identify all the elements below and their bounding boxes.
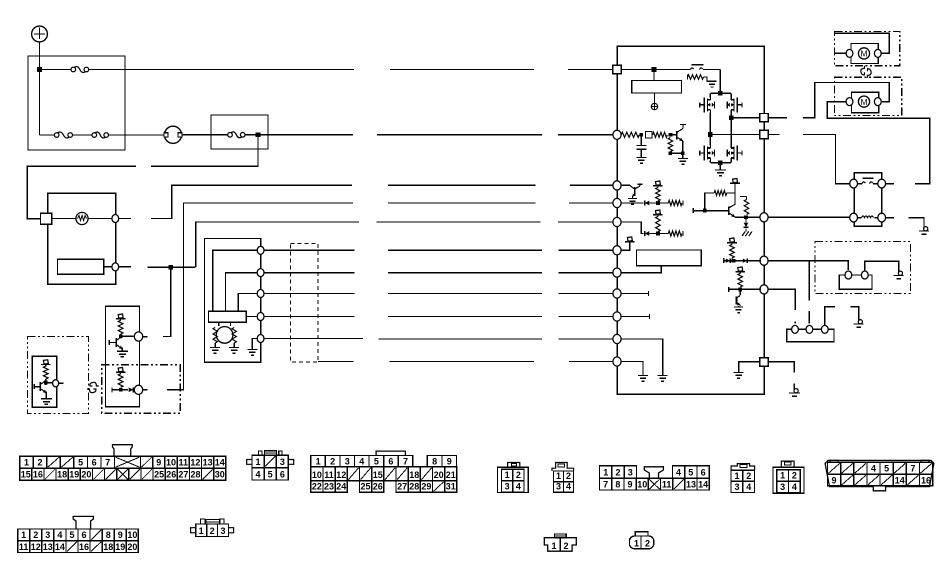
svg-text:30: 30 <box>215 470 225 480</box>
svg-text:9: 9 <box>447 456 452 466</box>
fuse F4 <box>228 133 233 138</box>
service connector box <box>839 275 872 289</box>
svg-text:2: 2 <box>516 470 521 480</box>
svg-text:13: 13 <box>43 542 53 552</box>
svg-text:10: 10 <box>312 470 322 480</box>
fuse box 2 (under-dash) <box>211 115 268 149</box>
ground torque shield <box>247 349 257 351</box>
torque sensor coil <box>216 327 233 344</box>
svg-text:6: 6 <box>388 456 393 466</box>
svg-text:3: 3 <box>345 456 350 466</box>
ground torque coil left <box>210 347 220 349</box>
svg-text:3: 3 <box>556 482 561 492</box>
wire bridge out right <box>731 117 760 119</box>
input clamp row4 <box>621 202 643 204</box>
wire row2 to ECU IG1 <box>258 134 353 136</box>
svg-text:1: 1 <box>256 457 261 467</box>
svg-text:2: 2 <box>566 471 571 481</box>
svg-text:11: 11 <box>662 480 672 490</box>
wire battery to fuse box <box>39 42 41 70</box>
junction battery feed <box>37 67 42 72</box>
vehicle speed sensor dash-dot box <box>28 337 89 414</box>
svg-text:2: 2 <box>615 468 620 478</box>
svg-text:2: 2 <box>645 539 650 549</box>
terminal oval lower <box>134 385 142 394</box>
gauge assembly box <box>48 193 116 284</box>
svg-text:5: 5 <box>69 530 74 540</box>
svg-text:16: 16 <box>921 475 931 485</box>
svg-text:14: 14 <box>895 475 905 485</box>
svg-text:15: 15 <box>373 470 383 480</box>
relay contact <box>850 179 858 188</box>
svg-text:6: 6 <box>82 530 87 540</box>
svg-text:19: 19 <box>69 470 79 480</box>
svg-text:21: 21 <box>446 470 456 480</box>
ground torque coil right <box>229 347 239 349</box>
svg-text:10: 10 <box>127 530 137 540</box>
svg-text:3: 3 <box>221 526 226 536</box>
svg-text:29: 29 <box>421 482 431 492</box>
connector F (14P) grid <box>600 466 612 479</box>
wire fuse row 1 <box>40 69 72 71</box>
svg-text:13: 13 <box>686 480 696 490</box>
svg-text:4: 4 <box>871 464 876 474</box>
fuse F2 <box>54 133 59 138</box>
wire torque t5 row10 <box>264 338 363 340</box>
svg-text:4: 4 <box>516 482 521 492</box>
svg-text:1: 1 <box>316 456 321 466</box>
motor inner box lower <box>852 92 879 112</box>
wire relay coil to ground <box>886 217 894 219</box>
svg-text:1: 1 <box>603 468 608 478</box>
IG1 input filter <box>621 132 639 137</box>
junction bridge mid-left <box>708 132 713 137</box>
wire ignition to fuse box 2 <box>182 134 211 136</box>
svg-text:12: 12 <box>31 542 41 552</box>
wire torque t4 row9 <box>264 316 354 318</box>
wire torque t2 row7 <box>264 272 354 274</box>
svg-text:3: 3 <box>780 482 785 492</box>
svg-text:5: 5 <box>374 456 379 466</box>
svg-text:7: 7 <box>403 456 408 466</box>
ignition switch <box>164 126 181 143</box>
ground right square internal <box>739 362 760 373</box>
svg-text:1: 1 <box>21 530 26 540</box>
ground H-bridge <box>715 169 726 171</box>
svg-text:3: 3 <box>734 482 739 492</box>
wire bridge out left <box>710 134 759 136</box>
wire +B internal <box>621 69 686 71</box>
svg-text:28: 28 <box>409 482 419 492</box>
svg-text:2: 2 <box>330 456 335 466</box>
connector C (31P) grid <box>311 456 326 467</box>
svg-text:24: 24 <box>336 482 346 492</box>
svg-text:12: 12 <box>190 458 200 468</box>
svg-text:1: 1 <box>634 539 639 549</box>
ECU left terminals <box>613 65 621 73</box>
connector A (30P) grid <box>20 456 34 468</box>
svg-text:2: 2 <box>38 458 43 468</box>
motor driver H-bridge <box>710 92 731 94</box>
svg-text:8: 8 <box>106 530 111 540</box>
terminal oval VSS <box>53 380 59 387</box>
svg-text:25: 25 <box>154 470 164 480</box>
svg-text:4: 4 <box>746 482 751 492</box>
connector C (31P) tab <box>376 451 405 455</box>
svg-text:23: 23 <box>324 482 334 492</box>
svg-text:1: 1 <box>734 471 739 481</box>
svg-text:5: 5 <box>268 469 273 479</box>
ground ECU main <box>794 389 798 393</box>
connector L (3P) <box>191 528 196 533</box>
connector B (6P) <box>247 460 252 465</box>
svg-text:5: 5 <box>78 458 83 468</box>
svg-text:3: 3 <box>628 468 633 478</box>
svg-text:14: 14 <box>55 542 65 552</box>
svg-text:11: 11 <box>324 470 334 480</box>
connector M (2P) <box>544 538 576 552</box>
svg-text:16: 16 <box>33 470 43 480</box>
svg-text:2: 2 <box>792 471 797 481</box>
meter internal unit <box>57 259 103 274</box>
junction bridge top <box>718 91 723 96</box>
EPS warning lamp <box>52 218 76 220</box>
svg-text:1: 1 <box>199 526 204 536</box>
wire data link ground <box>825 307 835 326</box>
fuse box 1 (under-hood) <box>28 56 125 150</box>
connector J (16P) outline <box>830 460 929 462</box>
svg-text:4: 4 <box>57 530 62 540</box>
svg-text:7: 7 <box>105 458 110 468</box>
fuse F1 <box>71 67 76 72</box>
upper signal circuit <box>118 314 123 318</box>
terminal oval lamp out <box>112 215 119 223</box>
ground row11 <box>621 362 643 376</box>
svg-text:16: 16 <box>79 542 89 552</box>
svg-text:3: 3 <box>45 530 50 540</box>
svg-text:6: 6 <box>92 458 97 468</box>
fail-safe relay <box>686 69 691 71</box>
svg-text:18: 18 <box>409 470 419 480</box>
svg-text:1: 1 <box>505 470 510 480</box>
svg-text:11: 11 <box>19 542 29 552</box>
svg-text:1: 1 <box>551 541 556 551</box>
relay coil <box>850 213 858 222</box>
svg-text:19: 19 <box>115 542 125 552</box>
motor lower <box>858 96 869 107</box>
svg-text:26: 26 <box>166 470 176 480</box>
svg-text:2: 2 <box>33 530 38 540</box>
ground relay coil <box>924 227 928 231</box>
connector G (4P) <box>731 464 755 471</box>
svg-text:4: 4 <box>792 482 797 492</box>
motor upper <box>858 48 869 59</box>
ECU right terminals <box>760 113 768 121</box>
torque output clamp 1 <box>730 238 735 242</box>
svg-text:M: M <box>860 49 867 59</box>
terminal oval upper <box>134 332 142 341</box>
svg-text:3: 3 <box>505 482 510 492</box>
svg-text:18: 18 <box>57 470 67 480</box>
terminal ovals torque sensor <box>257 246 264 254</box>
connector dashed box <box>291 244 319 363</box>
svg-text:2: 2 <box>746 471 751 481</box>
svg-text:M: M <box>860 97 867 107</box>
input clamp row5 <box>621 222 643 234</box>
svg-text:2: 2 <box>210 526 215 536</box>
svg-text:1: 1 <box>780 471 785 481</box>
wire lower sensor to ECU row4 <box>167 203 353 390</box>
torque output clamp 2 <box>738 267 743 271</box>
svg-text:27: 27 <box>397 482 407 492</box>
capacitor filter <box>640 135 642 146</box>
svg-text:20: 20 <box>127 542 137 552</box>
svg-text:22: 22 <box>312 482 322 492</box>
wire row1 to ECU +B <box>125 69 354 71</box>
supply stub row6 <box>621 243 630 250</box>
svg-text:5: 5 <box>884 464 889 474</box>
EPS control unit box <box>617 46 764 394</box>
current limit circuit <box>693 210 729 212</box>
svg-text:8: 8 <box>615 480 620 490</box>
svg-text:4: 4 <box>676 468 681 478</box>
torque sensor inner wires <box>213 250 257 311</box>
analog supply symbol <box>654 93 656 104</box>
wire service to ground <box>865 261 899 272</box>
wire ECU power ground <box>768 362 794 373</box>
wire meter out to ECU row5 <box>119 266 131 268</box>
inline connector motor <box>861 66 865 75</box>
svg-text:18: 18 <box>103 542 113 552</box>
wire torque t1 row6 <box>264 249 354 251</box>
connector A (30P) lock tab <box>113 445 133 456</box>
motor dash-dot box lower <box>834 77 901 115</box>
sensor box (speed/engine signals) <box>105 306 139 406</box>
stub row9 <box>621 316 649 318</box>
svg-text:20: 20 <box>81 470 91 480</box>
svg-text:15: 15 <box>21 470 31 480</box>
wire K-line to data link <box>808 261 810 300</box>
junction regulator feed <box>652 67 657 72</box>
ground watchdog <box>678 158 688 160</box>
wire IG1 branch to meter <box>151 135 258 167</box>
wire lamp to ECU row3 <box>119 218 131 220</box>
engine speed dash-dot box <box>102 365 181 413</box>
svg-text:2: 2 <box>563 541 568 551</box>
wire ECU to service connector <box>768 261 848 270</box>
wire ECU to relay contact <box>768 134 779 136</box>
connector K (20P) grid <box>18 529 30 541</box>
ground row10 <box>621 339 663 376</box>
svg-text:4: 4 <box>359 456 364 466</box>
svg-text:4: 4 <box>566 482 571 492</box>
connector J (16P) grid <box>828 462 841 474</box>
svg-text:27: 27 <box>178 470 188 480</box>
lamp driver transistor <box>621 184 630 186</box>
svg-text:11: 11 <box>178 458 188 468</box>
svg-text:14: 14 <box>215 458 225 468</box>
junction IG1 branch <box>256 133 261 138</box>
svg-text:31: 31 <box>446 482 456 492</box>
wire torque t3 row8 <box>264 293 354 295</box>
svg-text:1: 1 <box>556 471 561 481</box>
wire fuse row 2 vertical <box>39 70 41 136</box>
svg-text:1: 1 <box>24 458 29 468</box>
terminal square meter <box>41 213 52 224</box>
svg-text:7: 7 <box>603 480 608 490</box>
fuse F3 <box>92 133 97 138</box>
svg-text:25: 25 <box>361 482 371 492</box>
svg-text:9: 9 <box>118 530 123 540</box>
cpu block <box>637 250 702 266</box>
svg-text:8: 8 <box>432 456 437 466</box>
ground capacitor <box>636 157 646 159</box>
svg-text:3: 3 <box>280 457 285 467</box>
svg-text:7: 7 <box>910 464 915 474</box>
connector D (4P) <box>498 467 529 492</box>
svg-text:5: 5 <box>688 468 693 478</box>
wire ECU to data link <box>768 289 795 310</box>
battery positive terminal <box>32 26 48 42</box>
svg-text:12: 12 <box>336 470 346 480</box>
connector E (4P) <box>552 463 574 472</box>
inline connector VSS <box>87 389 96 393</box>
svg-text:10: 10 <box>166 458 176 468</box>
wire relay coil to ECU <box>768 216 850 218</box>
wire ECU to motor right lead <box>768 117 787 119</box>
connector N (2P) <box>629 536 653 549</box>
stub row8 <box>621 293 648 295</box>
torque sensor interface <box>209 311 247 322</box>
junction bridge mid-right <box>729 115 734 120</box>
wire fuse row 2 <box>40 134 55 136</box>
svg-text:14: 14 <box>698 480 708 490</box>
VSS circuit <box>43 360 48 364</box>
svg-text:9: 9 <box>832 475 837 485</box>
wire junction down to speed sensor <box>163 267 171 336</box>
service check dash-dot box <box>815 242 910 294</box>
lower signal circuit <box>118 368 123 372</box>
junction bridge bottom <box>718 160 723 165</box>
cpu pin to row7 <box>621 266 661 273</box>
torque sensor box <box>205 239 261 363</box>
wire shield row11 <box>318 361 354 363</box>
motor dash-dot box upper <box>834 32 899 66</box>
svg-text:28: 28 <box>190 470 200 480</box>
watchdog transistor <box>670 134 676 136</box>
connector K (20P) tab <box>73 516 93 529</box>
svg-text:9: 9 <box>628 480 633 490</box>
VSS inner box <box>32 356 57 407</box>
svg-text:26: 26 <box>373 482 383 492</box>
data link connector box <box>787 329 834 341</box>
junction meter wire <box>169 265 174 270</box>
motor inner box upper <box>851 44 878 64</box>
ground service connector <box>898 271 902 275</box>
svg-text:9: 9 <box>156 458 161 468</box>
svg-text:10: 10 <box>637 480 647 490</box>
wire motor left lead loop <box>827 102 930 184</box>
svg-text:4: 4 <box>256 469 261 479</box>
regulator block <box>632 80 682 93</box>
wire relay to bridge <box>719 70 721 94</box>
svg-text:6: 6 <box>280 469 285 479</box>
power relay box <box>854 173 882 227</box>
svg-text:6: 6 <box>701 468 706 478</box>
connector H (4P) <box>773 467 804 493</box>
svg-text:20: 20 <box>434 470 444 480</box>
ground data link <box>858 320 862 324</box>
terminal oval meter out <box>112 263 119 271</box>
hatched ground current limit <box>742 232 745 237</box>
svg-text:13: 13 <box>203 458 213 468</box>
